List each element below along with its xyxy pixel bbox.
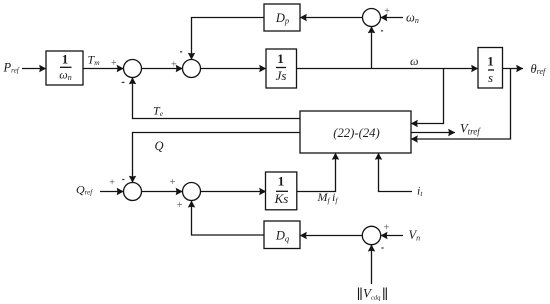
block Dp bbox=[264, 4, 300, 31]
wire: i_t up into block (22)-(24) bbox=[379, 153, 413, 192]
wire: T_e feedback from block (22)-(24) to summer S1 bbox=[133, 78, 301, 119]
wire: block Dp down to summer S2 bbox=[192, 18, 265, 60]
wire: block 1/Ks up into block (22)-(24) bbox=[297, 153, 336, 192]
svg-text:+: + bbox=[170, 60, 177, 71]
wire: summer S1 to summer S2 bbox=[142, 68, 183, 70]
block Dq bbox=[264, 221, 300, 249]
wire: ||V_cdq|| up to summer SB bbox=[371, 245, 373, 284]
svg-text:ω: ω bbox=[410, 54, 418, 68]
svg-text:Dq: Dq bbox=[275, 229, 290, 244]
summer ST (top) bbox=[363, 9, 381, 27]
wire: omega_n to summer ST bbox=[381, 17, 404, 19]
svg-text:(22)-(24): (22)-(24) bbox=[333, 126, 380, 140]
wire: block 1/s output to theta_ref bbox=[503, 68, 524, 70]
wire: summer S4 to block 1/Ks bbox=[201, 191, 267, 193]
wire: Q feedback from block (22)-(24) to summer S3 bbox=[133, 133, 301, 183]
sign - at S2 top input bbox=[180, 51, 182, 52]
wire: block 1/wn to summer S1 bbox=[83, 68, 124, 70]
block 1/Ks bbox=[266, 172, 297, 210]
summer S2 bbox=[183, 60, 201, 78]
summer SB (bottom) bbox=[362, 226, 380, 244]
wire: omega line drop into block (22)-(24) right side bbox=[411, 69, 444, 124]
wire: theta drop into block (22)-(24) right side bbox=[411, 69, 511, 140]
svg-text:Pref: Pref bbox=[3, 61, 20, 75]
summer S1 bbox=[124, 60, 142, 78]
wire: summer SB to block Dq bbox=[300, 235, 362, 237]
sign - at S3 top input bbox=[122, 179, 124, 180]
wire: summer ST to block Dp bbox=[300, 17, 362, 19]
block 1/s bbox=[478, 48, 503, 89]
wire: V_tref output from block (22)-(24) bbox=[411, 132, 455, 134]
wire: summer S2 to block 1/Js bbox=[200, 68, 266, 70]
svg-text:Dp: Dp bbox=[275, 11, 289, 26]
svg-text:+: + bbox=[384, 6, 391, 17]
wire: P_ref to block 1/wn bbox=[22, 68, 46, 70]
block (22)-(24) bbox=[300, 111, 411, 153]
svg-text:1: 1 bbox=[278, 173, 285, 188]
svg-text:it: it bbox=[417, 184, 423, 199]
svg-text:Tm: Tm bbox=[88, 53, 101, 68]
block 1/wn bbox=[46, 51, 83, 85]
svg-text:ωn: ωn bbox=[59, 68, 71, 83]
svg-text:+: + bbox=[109, 177, 116, 188]
summer S4 bbox=[183, 183, 201, 201]
svg-text:Vtref: Vtref bbox=[460, 121, 481, 136]
svg-text:s: s bbox=[488, 70, 493, 85]
svg-text:Q: Q bbox=[155, 139, 164, 153]
wire: summer S3 to summer S4 bbox=[142, 191, 183, 193]
svg-text:Qref: Qref bbox=[76, 183, 93, 197]
svg-text:θref: θref bbox=[531, 62, 548, 76]
svg-text:1: 1 bbox=[487, 54, 494, 69]
svg-text:Te: Te bbox=[153, 104, 164, 119]
svg-text:+: + bbox=[383, 222, 390, 233]
svg-text:Vcdq: Vcdq bbox=[363, 286, 381, 302]
svg-text:+: + bbox=[110, 58, 117, 69]
svg-text:Js: Js bbox=[276, 68, 287, 83]
svg-text:1: 1 bbox=[277, 51, 284, 66]
svg-text:Ks: Ks bbox=[274, 191, 289, 206]
block 1/Js bbox=[266, 49, 297, 88]
svg-text:1: 1 bbox=[62, 52, 69, 67]
svg-text:+: + bbox=[169, 177, 176, 188]
svg-text:Vn: Vn bbox=[409, 228, 421, 243]
wire: V_n to summer SB bbox=[381, 235, 403, 237]
sign - at S1 bottom input bbox=[122, 82, 125, 83]
wire: block Dq up to summer S4 bbox=[192, 201, 265, 235]
wire: omega line up to top summer ST bbox=[371, 27, 373, 69]
wire: Q_ref to summer S3 bbox=[100, 191, 124, 193]
sign - at SB bottom bbox=[381, 247, 383, 248]
node ||V_cdq|| (input label) bbox=[359, 286, 387, 302]
svg-text:ωn: ωn bbox=[406, 10, 419, 25]
sign - at ST bottom bbox=[381, 30, 383, 31]
svg-text:+: + bbox=[176, 200, 183, 211]
summer S3 bbox=[124, 183, 142, 201]
wire: block 1/Js to block 1/s (omega line) bbox=[297, 68, 479, 70]
